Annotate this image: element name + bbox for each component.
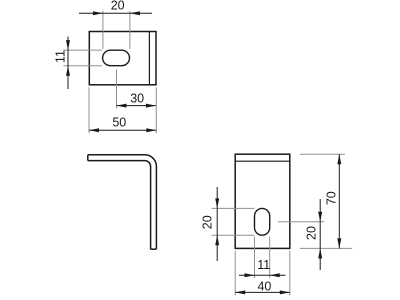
dim 20 slot extension line bottom (212, 234, 255, 236)
dim 50 arrow left (89, 128, 99, 132)
svg-text:11: 11 (53, 50, 67, 63)
dim 11 dimension line (67, 37, 69, 90)
top view slot (103, 50, 130, 65)
dim 11 front extension line right (269, 237, 271, 279)
shared bottom extension line (300, 247, 352, 249)
dim 20 slot arrow top (215, 198, 219, 208)
dim 11 extension line bottom (63, 65, 102, 67)
dim 20 base arrow bottom (318, 248, 322, 258)
svg-text:20: 20 (111, 0, 125, 12)
top view bend line (148, 32, 150, 85)
dim 11 front dimension line (239, 274, 286, 276)
front view slot (255, 208, 270, 235)
dim 20 base arrow top (318, 212, 322, 222)
dim 30 extension line slot centre (116, 70, 118, 109)
svg-text:11: 11 (257, 258, 270, 272)
dim 30 dimension line (117, 105, 156, 107)
side view L profile inner contour (88, 161, 151, 250)
top view plate outline (89, 32, 156, 85)
dim 50 arrow right (146, 128, 156, 132)
svg-text:50: 50 (112, 115, 126, 129)
dim 50 dimension line (89, 129, 156, 131)
dim 20 slot dimension line (216, 187, 218, 261)
dim 40 dimension line (235, 291, 290, 293)
dim 20 slot arrow bottom (215, 235, 219, 245)
svg-text:20: 20 (201, 215, 215, 229)
dim 11 extension line top (63, 49, 102, 51)
dim 40 arrow right (280, 290, 290, 294)
dim 70 extension line top (300, 153, 345, 155)
side view L profile bottom end cap (151, 248, 157, 250)
dim 50 extension line left (88, 87, 90, 133)
dim 20 base extension line slot centre (278, 221, 325, 223)
svg-text:30: 30 (130, 92, 144, 106)
svg-text:20: 20 (305, 226, 319, 240)
dim 40 extension line left (234, 251, 236, 296)
dim 30 arrow right (146, 104, 156, 108)
dim 20 dimension line (79, 12, 152, 14)
dim 20 extension line left (102, 11, 104, 49)
svg-text:70: 70 (324, 191, 338, 205)
dim 30/50 extension line right (155, 88, 157, 134)
side view L profile outer contour (88, 155, 157, 249)
dim 20 arrow left (93, 11, 103, 15)
dim 30 arrow left (117, 104, 127, 108)
dim 70 arrow top (337, 154, 341, 164)
dim 20 slot extension line top (212, 207, 255, 209)
front view plate outline (235, 154, 290, 248)
dim 20 extension line right (129, 11, 131, 49)
dim 11 front arrow right (270, 273, 280, 277)
dim 11 front extension line left (254, 237, 256, 279)
dim 11 arrow bottom (66, 66, 70, 76)
dim 11 arrow top (66, 40, 70, 50)
dim 40 arrow left (235, 290, 245, 294)
dim 20 base dimension line (319, 199, 321, 270)
dim 40 extension line right (289, 251, 291, 296)
dim 70 arrow bottom (337, 238, 341, 248)
dim 11 front arrow left (245, 273, 255, 277)
dim 70 dimension line (338, 154, 340, 248)
side view L profile left end cap (87, 155, 89, 161)
front view bend line (235, 160, 290, 162)
dim 20 arrow right (130, 11, 140, 15)
svg-text:40: 40 (257, 280, 271, 294)
